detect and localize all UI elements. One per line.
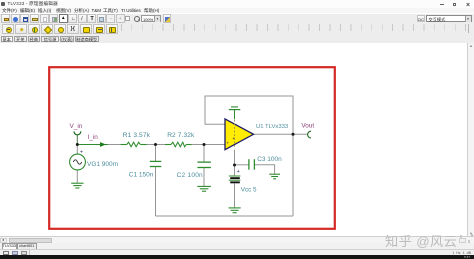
label C1 bbox=[129, 172, 154, 179]
svg-text:+: + bbox=[232, 136, 235, 141]
pin V_in bbox=[74, 131, 81, 134]
svg-text:+: + bbox=[226, 141, 229, 146]
svg-text:R2 7.32k: R2 7.32k bbox=[167, 132, 195, 139]
wire: node B down to C2 bbox=[203, 145, 205, 163]
wire: output node down right side bbox=[292, 134, 294, 216]
label VG1 bbox=[87, 161, 118, 168]
label C3 bbox=[257, 156, 282, 163]
sheet tabs bbox=[0, 243, 474, 249]
output junction bbox=[292, 133, 295, 136]
supply junction bbox=[233, 164, 236, 167]
label U1 bbox=[256, 124, 289, 130]
wire: supply node to C3 bbox=[235, 164, 249, 166]
svg-text:VG1 900m: VG1 900m bbox=[87, 161, 118, 168]
ground (C3) bbox=[269, 174, 280, 179]
resistor R2 bbox=[165, 142, 192, 147]
ground (C2) bbox=[197, 186, 211, 191]
toolbar row 2 (component groups) bbox=[0, 23, 474, 35]
svg-text:C1 150n: C1 150n bbox=[129, 172, 154, 179]
title bar bbox=[0, 0, 474, 9]
capacitor C2 bbox=[197, 162, 211, 167]
toolbar row 1 bbox=[0, 14, 474, 25]
wire: R1 to R2 bbox=[147, 144, 166, 146]
wire: battery to ground bbox=[234, 183, 236, 207]
svg-text:C3 100n: C3 100n bbox=[257, 156, 282, 163]
canvas bbox=[0, 43, 467, 236]
wire: bottom return rail bbox=[156, 215, 294, 217]
svg-text:I_in: I_in bbox=[88, 134, 99, 141]
node B junction bbox=[203, 143, 206, 146]
node A junction bbox=[154, 143, 157, 146]
label Vout bbox=[301, 123, 314, 130]
red selection frame bbox=[49, 67, 335, 229]
svg-text:+: + bbox=[237, 169, 240, 175]
capacitor C3 bbox=[249, 159, 255, 170]
wire: R2 to op-amp non-inverting input bbox=[192, 144, 226, 146]
svg-text:Vcc 5: Vcc 5 bbox=[241, 186, 257, 193]
menu bar bbox=[0, 8, 474, 14]
wire: C1 bottom to rail bbox=[155, 167, 157, 216]
op-amp U1 bbox=[225, 119, 254, 150]
node junction input bbox=[76, 143, 79, 146]
wire: op-amp V+ pin to supply node bbox=[234, 150, 236, 176]
capacitor C1 bbox=[150, 161, 162, 166]
label I_in bbox=[88, 134, 99, 141]
label V_in bbox=[70, 123, 83, 130]
label R1 bbox=[123, 132, 151, 139]
ground (VG1) bbox=[71, 183, 83, 188]
label Vcc bbox=[241, 186, 257, 193]
svg-text:R1 3.57k: R1 3.57k bbox=[123, 132, 151, 139]
battery plus mark bbox=[237, 169, 240, 175]
wire: source VG1 connections bbox=[76, 145, 78, 184]
vertical scrollbar bbox=[467, 43, 474, 236]
voltage source VG1 bbox=[70, 150, 86, 170]
ground (battery) bbox=[229, 208, 241, 213]
wire: V_in stem bbox=[76, 135, 78, 145]
wire: C3 to ground bbox=[255, 165, 275, 174]
wire: feedback top loop bbox=[205, 96, 293, 134]
wire: input node to R1 bbox=[77, 144, 120, 146]
tab row bbox=[0, 35, 474, 44]
horizontal scrollbar bbox=[0, 236, 474, 243]
battery Vcc bbox=[229, 176, 241, 183]
svg-text:U1 TLVx333: U1 TLVx333 bbox=[256, 124, 289, 130]
taskbar strip bbox=[0, 255, 474, 259]
svg-text:C2 100n: C2 100n bbox=[177, 172, 203, 179]
ground (op-amp V- above) bbox=[229, 107, 241, 119]
svg-text:V_in: V_in bbox=[70, 123, 83, 130]
wire: node A down to C1 bbox=[155, 145, 157, 162]
wire: C2 to ground bbox=[203, 168, 205, 186]
pin Vout bbox=[308, 131, 311, 138]
watermark bbox=[385, 231, 457, 250]
current arrow I_in bbox=[100, 142, 106, 147]
svg-text:+: + bbox=[80, 150, 83, 156]
resistor R1 bbox=[121, 142, 147, 147]
wire: output to Vout pin bbox=[254, 133, 308, 135]
label R2 bbox=[167, 132, 195, 139]
svg-text:Vout: Vout bbox=[301, 123, 314, 130]
label C2 bbox=[177, 172, 203, 179]
status bar bbox=[0, 249, 474, 255]
